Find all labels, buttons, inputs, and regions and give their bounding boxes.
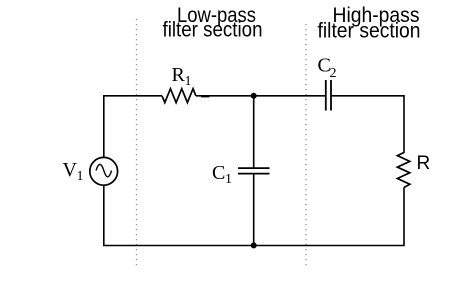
- label V1: [63, 159, 84, 184]
- svg-text:1: 1: [225, 172, 232, 187]
- label: Low-pass filter section: [163, 3, 263, 42]
- resistor R1: [162, 89, 196, 103]
- label C2: [318, 55, 337, 82]
- svg-text:filter section: filter section: [318, 19, 421, 43]
- section boundary dotted line (left): [136, 19, 138, 267]
- svg-text:filter section: filter section: [163, 18, 263, 42]
- svg-text:R: R: [417, 153, 431, 174]
- section boundary dotted line (right): [305, 24, 307, 267]
- resistor R: [397, 153, 409, 188]
- svg-text:2: 2: [330, 66, 337, 81]
- wire: right side below R to bottom-right corner: [254, 188, 404, 246]
- voltage source V1: [90, 157, 118, 185]
- capacitor C1: [238, 168, 270, 174]
- wire: C1 branch upper: [253, 96, 255, 168]
- label C1: [212, 162, 232, 187]
- label: High-pass filter section: [318, 3, 421, 43]
- wire: C2 to top-right corner and down: [331, 96, 404, 153]
- wire: top-left segment: [104, 96, 162, 157]
- label R1: [172, 64, 192, 89]
- svg-text:1: 1: [185, 74, 192, 89]
- wire: resistor lead stub overlap: [201, 95, 210, 97]
- svg-text:C: C: [212, 162, 225, 184]
- capacitor C2: [326, 80, 331, 111]
- wire: bottom-left segment: [104, 186, 254, 246]
- wire: C1 branch lower: [253, 174, 255, 246]
- svg-text:R: R: [172, 64, 186, 86]
- svg-text:V: V: [63, 159, 78, 181]
- node junction dot (bottom): [251, 242, 257, 248]
- node junction dot (top): [251, 93, 257, 99]
- svg-text:1: 1: [77, 169, 84, 184]
- wire: R1 to C2: [196, 95, 326, 97]
